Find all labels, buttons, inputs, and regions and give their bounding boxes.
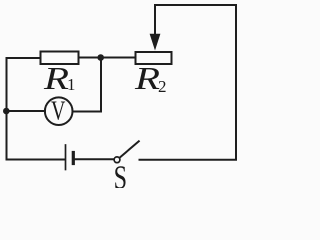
svg-text:V: V — [51, 97, 65, 127]
wire wiper vertical — [154, 5, 156, 36]
svg-text:R: R — [43, 60, 69, 96]
svg-text:1: 1 — [67, 75, 76, 94]
rheostat R2 — [136, 52, 172, 64]
switch S hinge circle — [114, 157, 120, 163]
wire voltmeter vertical from node — [100, 58, 102, 112]
wire battery to switch — [75, 158, 114, 160]
wire left vertical — [6, 58, 8, 160]
wire top horizontal — [155, 4, 236, 6]
wiper arrowhead of R2 — [150, 34, 161, 51]
wire voltmeter to left wire — [7, 110, 45, 112]
wire R1 to R2 — [79, 57, 136, 59]
svg-text:R: R — [134, 60, 160, 96]
wire right vertical — [235, 5, 237, 160]
wire bottom left to battery — [7, 159, 66, 161]
voltmeter U1 circle — [45, 97, 73, 125]
node junction dot left — [3, 108, 10, 115]
svg-text:S: S — [114, 159, 127, 188]
node junction dot R1-R2 — [97, 54, 104, 61]
battery long plate — [65, 145, 67, 170]
battery short plate — [72, 153, 75, 164]
wire top-left horizontal to R1 — [7, 57, 41, 59]
resistor R1 — [41, 52, 79, 65]
wire switch to bottom right — [140, 159, 237, 161]
switch S lever — [120, 141, 139, 157]
wire voltmeter horizontal right — [74, 111, 102, 113]
svg-text:2: 2 — [158, 77, 167, 96]
